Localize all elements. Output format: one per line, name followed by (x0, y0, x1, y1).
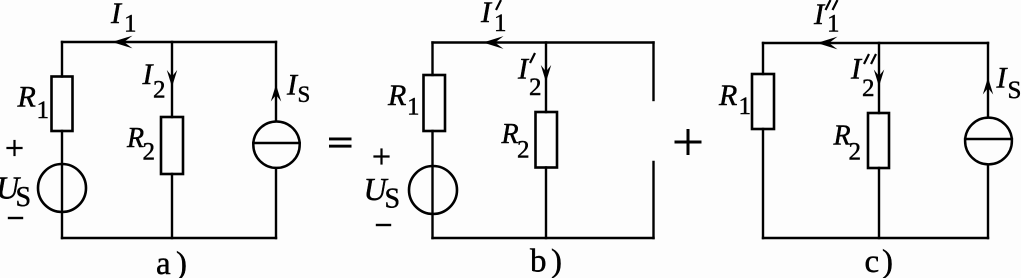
svg-text:1: 1 (494, 10, 507, 37)
wire: a left bottom (61, 131, 63, 238)
svg-text:2: 2 (529, 74, 542, 101)
svg-text:R: R (718, 79, 737, 112)
wire: a middle top (171, 42, 173, 117)
svg-text:S: S (385, 184, 401, 215)
label + polarity (a) (8, 141, 22, 155)
label I'2 (517, 53, 542, 102)
label I2 (142, 58, 166, 104)
svg-text:): ) (551, 244, 562, 278)
svg-text:b: b (530, 244, 547, 278)
plus sign between b and c (676, 131, 700, 154)
label a) (156, 246, 187, 278)
label I''1 (813, 0, 840, 38)
svg-text:2: 2 (143, 139, 156, 166)
svg-text:S: S (16, 182, 32, 213)
equals sign (329, 138, 352, 148)
wire: b top (433, 41, 654, 43)
svg-text:): ) (882, 244, 893, 278)
label I1 (110, 0, 137, 38)
arrow I'1 (left) (483, 36, 504, 49)
wire: c top (763, 42, 988, 44)
current source IS (c) (965, 118, 1012, 165)
label - polarity (a) (9, 217, 22, 219)
label R2 (b) (501, 119, 530, 164)
label I''2 (850, 53, 875, 103)
label - polarity (b) (377, 224, 390, 226)
wire: b middle top (545, 43, 547, 113)
svg-text:a: a (156, 246, 171, 278)
label US (b) (364, 171, 401, 215)
label US (a) (0, 170, 31, 214)
wire: c middle bottom (878, 168, 880, 238)
wire: a bottom (62, 237, 276, 239)
label IS (c) (996, 62, 1021, 105)
wire: c left top (762, 43, 764, 74)
svg-text:2: 2 (849, 139, 862, 166)
voltage source US (a) (38, 164, 86, 212)
svg-text:R: R (126, 123, 144, 154)
double prime of I''2 (865, 55, 876, 63)
wire: a right bottom (275, 169, 277, 238)
svg-text:2: 2 (862, 75, 875, 102)
arrow I2 (down) (167, 70, 177, 87)
double prime of I''1 (826, 1, 837, 9)
prime of I'1 (497, 1, 501, 9)
label R2 (c) (833, 121, 862, 166)
wire: b middle bottom (545, 168, 547, 239)
svg-text:1: 1 (739, 93, 752, 120)
wire: c middle top (878, 43, 880, 113)
resistor R1 (c) (752, 74, 774, 129)
arrow I'2 (down) (541, 65, 551, 82)
wire: b left bottom (431, 131, 433, 238)
wire: c right top (987, 43, 989, 117)
label R1 (c) (718, 79, 751, 120)
svg-text:): ) (176, 246, 187, 278)
arrow IS (up, a) (271, 85, 281, 102)
resistor R2 (a) (161, 117, 183, 174)
wire: c right bottom (987, 165, 989, 238)
svg-text:1: 1 (827, 11, 840, 38)
wire: a middle bottom (171, 174, 173, 238)
wire: a top (62, 41, 276, 43)
wire: b right stub bottom (open) (652, 162, 654, 238)
label R1 (b) (387, 79, 420, 121)
svg-text:c: c (865, 244, 880, 278)
svg-text:1: 1 (37, 97, 50, 124)
current source IS (a) (253, 122, 299, 168)
svg-text:S: S (1008, 77, 1021, 104)
prime of I'2 (531, 54, 535, 62)
svg-text:I: I (110, 0, 123, 30)
arrow I''1 (left) (817, 37, 838, 50)
arrow IS (up, c) (983, 78, 993, 95)
svg-text:2: 2 (517, 137, 530, 164)
svg-text:I: I (813, 0, 826, 31)
wire: b left top (431, 43, 433, 76)
label IS (a) (286, 69, 310, 108)
resistor R1 (a) (52, 77, 73, 132)
label c) (865, 244, 894, 278)
wire: a right top (275, 42, 277, 121)
svg-text:1: 1 (124, 11, 137, 38)
label I'1 (480, 0, 507, 37)
wire: a left top (61, 42, 63, 77)
svg-text:S: S (298, 82, 311, 107)
svg-text:R: R (17, 81, 36, 114)
resistor R1 (b) (424, 75, 446, 131)
label R1 (a) (17, 81, 50, 125)
label R2 (a) (126, 123, 155, 166)
svg-text:2: 2 (153, 77, 166, 104)
arrow I1 (left) (112, 36, 133, 49)
voltage source US (b) (409, 166, 457, 214)
svg-text:R: R (387, 79, 406, 112)
label b) (530, 244, 562, 278)
svg-text:R: R (501, 119, 519, 150)
wire: b right stub top (open) (652, 43, 654, 101)
wire: c left bottom (762, 129, 764, 238)
resistor R2 (c) (868, 113, 889, 168)
label + polarity (b) (375, 150, 389, 164)
arrow I''2 (down) (874, 70, 884, 87)
svg-text:I: I (480, 0, 493, 29)
wire: c bottom (763, 237, 988, 239)
svg-text:1: 1 (407, 94, 420, 121)
wire: b bottom (433, 237, 654, 239)
resistor R2 (b) (536, 112, 558, 168)
